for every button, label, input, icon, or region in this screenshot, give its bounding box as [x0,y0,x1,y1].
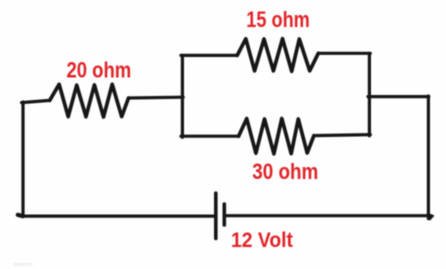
battery B1 negative plate [223,204,227,225]
wire bottom branch right [314,135,370,136]
node A: parallel left vertical wire [181,55,184,137]
svg-text:12 Volt: 12 Volt [231,228,293,252]
wire bottom right [225,214,430,217]
svg-text:15 ohm: 15 ohm [246,7,309,32]
resistor R3 30 ohm [239,119,314,154]
resistor R1 20 ohm [50,84,129,117]
svg-text:20 ohm: 20 ohm [67,57,132,82]
wire output [368,95,429,98]
junction dot bottom-right [427,213,433,220]
wire top branch left [181,54,237,57]
wire top-left segment [22,100,50,102]
wire left vertical [21,102,24,216]
corner tick bottom-left [18,215,23,216]
wire right vertical [427,96,430,219]
battery B1 positive plate [214,193,218,238]
faint smudge bottom-left [13,263,33,267]
svg-text:30 ohm: 30 ohm [252,159,318,184]
wire bottom branch left [181,135,239,138]
wire top branch right [318,52,370,55]
node B: parallel right vertical wire [368,53,371,136]
resistor R2 15 ohm [237,39,318,72]
wire bottom left [21,215,215,218]
wire R1 to node A [129,96,184,100]
